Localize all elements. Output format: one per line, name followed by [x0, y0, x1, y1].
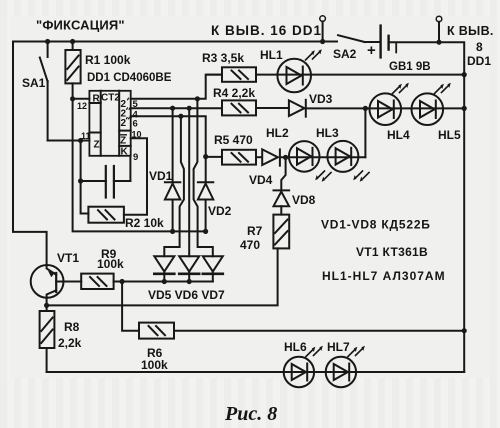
transistor VT1 — [31, 265, 64, 298]
svg-text:HL2: HL2 — [266, 126, 289, 140]
node pin5 bus — [195, 96, 200, 101]
node R9 R6 — [120, 279, 125, 284]
svg-text:Z: Z — [120, 136, 126, 147]
resistor R7 — [273, 215, 289, 249]
svg-text:6: 6 — [133, 118, 138, 129]
wire bus pin5 to VD7 — [194, 99, 213, 256]
svg-text:Z: Z — [94, 140, 100, 151]
wire row2 R4 to VD3 — [256, 107, 289, 109]
svg-text:HL6: HL6 — [284, 340, 307, 354]
svg-text:12: 12 — [77, 101, 87, 111]
diode VD6 — [179, 256, 199, 274]
svg-text:HL3: HL3 — [316, 126, 339, 140]
svg-text:R: R — [93, 94, 101, 105]
svg-text:R5 470: R5 470 — [214, 133, 253, 147]
svg-text:HL7: HL7 — [327, 340, 350, 354]
svg-text:VD2: VD2 — [208, 204, 232, 218]
svg-text:HL1-HL7 АЛ307АМ: HL1-HL7 АЛ307АМ — [322, 269, 446, 283]
svg-text:HL5: HL5 — [438, 128, 461, 142]
wire VD8 to R7 — [280, 206, 282, 214]
wire bus pin4 to VD6 — [188, 108, 190, 256]
wire R5 left — [206, 156, 222, 158]
node R6 border — [462, 328, 467, 333]
svg-text:SA1: SA1 — [22, 76, 46, 90]
svg-text:К ВЫВ. 16 DD1: К ВЫВ. 16 DD1 — [211, 23, 322, 38]
wire R5 node to VD2 cathode — [205, 157, 207, 183]
switch SA1 — [40, 42, 48, 141]
svg-text:R8: R8 — [64, 320, 80, 334]
svg-text:VT1: VT1 — [57, 251, 79, 265]
node pin4 bus VD6 — [187, 106, 192, 111]
wire row1 R3 to HL1 to border — [256, 74, 464, 76]
diode VD1 — [165, 182, 180, 199]
resistor R4 — [222, 100, 256, 115]
resistor R1 — [65, 42, 80, 99]
LED HL6 — [284, 347, 323, 388]
wire pin4 node to VD1 cathode — [172, 108, 174, 182]
node R1 top — [70, 39, 75, 44]
resistor R9 — [81, 274, 122, 289]
svg-text:8: 8 — [476, 40, 483, 54]
wire VT1 base to R9 — [64, 281, 82, 283]
LED HL7 — [326, 347, 365, 388]
wire pin 5 to R3 riser — [131, 75, 222, 99]
svg-text:K: K — [121, 147, 129, 158]
LED HL2 — [289, 141, 331, 181]
svg-text:DD1 CD4060BE: DD1 CD4060BE — [87, 72, 172, 84]
wire SA1 to pin 11 — [48, 140, 90, 142]
node R1 pin12 — [70, 96, 75, 101]
wire C1 to pin 9 — [129, 156, 131, 181]
resistor R2 — [88, 207, 124, 223]
svg-text:VT1 КТ361В: VT1 КТ361В — [356, 245, 428, 259]
wire top supply rail — [13, 41, 337, 43]
wire R1 node down to reset rail — [73, 99, 206, 232]
wire row2 VD3 to HL4 HL5 border — [306, 107, 465, 109]
svg-text:10: 10 — [132, 130, 142, 140]
wire row3 R5 to VD4 — [256, 156, 262, 158]
svg-text:R3 3,5k: R3 3,5k — [202, 51, 244, 65]
wire collector rail to R7 — [47, 248, 278, 305]
wire VD5 to base rail — [163, 272, 165, 282]
switch SA2 — [338, 35, 380, 42]
label R6 100k — [141, 346, 168, 372]
op-amp U1 (counter IC DD1 body) — [89, 91, 130, 156]
wire row3 VD4 through HL2 HL3 — [280, 156, 365, 158]
node row2 border — [462, 106, 467, 111]
svg-text:+: + — [367, 42, 376, 59]
wire pin11 node down to R2 — [81, 141, 89, 214]
node VD5 rail — [162, 279, 167, 284]
svg-text:SA2: SA2 — [333, 47, 357, 61]
svg-text:11: 11 — [81, 131, 91, 141]
diode VD2 — [198, 182, 213, 199]
node HL1 border — [462, 72, 467, 77]
wire VT1 collector node — [46, 298, 48, 311]
node VD1 reset rail — [170, 229, 175, 234]
diode VD3 — [289, 100, 306, 117]
IC label 2^2 — [121, 107, 131, 119]
node C1 tap — [78, 178, 83, 183]
svg-text:VD1-VD8 КД522Б: VD1-VD8 КД522Б — [321, 218, 431, 232]
svg-text:9: 9 — [133, 152, 138, 163]
wire left border down to VT1 emitter — [13, 42, 47, 266]
LED HL4 — [370, 84, 409, 125]
svg-text:R2 10k: R2 10k — [125, 216, 164, 230]
LED HL5 — [412, 84, 451, 125]
svg-text:CT2: CT2 — [101, 93, 120, 104]
wire HL3 riser to row2 — [364, 108, 366, 157]
IC label Z output — [120, 135, 128, 147]
node VD4 HL2 VD8 — [283, 155, 288, 160]
svg-text:VD5 VD6 VD7: VD5 VD6 VD7 — [148, 288, 225, 302]
node terminal 16 — [320, 39, 325, 44]
node pin4 bus VD1 — [170, 106, 175, 111]
node VT1 collector — [44, 303, 49, 308]
label R7 470 — [240, 224, 263, 252]
svg-text:2: 2 — [121, 118, 127, 129]
resistor R6 — [139, 323, 174, 339]
wire R2 to pin 10 — [124, 138, 147, 214]
wire VD6 to base rail — [188, 272, 190, 282]
resistor R3 — [207, 67, 256, 82]
svg-text:DD1: DD1 — [467, 54, 491, 68]
label R8 2,2k — [58, 320, 82, 350]
node VD2 reset rail — [203, 229, 208, 234]
svg-text:VD1: VD1 — [149, 169, 173, 183]
svg-text:R7: R7 — [247, 224, 263, 238]
diode VD4 — [262, 149, 280, 165]
svg-text:100k: 100k — [97, 257, 124, 271]
battery GB1 — [381, 26, 397, 58]
node pin11 — [78, 138, 83, 143]
label R9 100k — [97, 247, 124, 271]
wire R6 to right border — [174, 330, 464, 332]
wire pin 4 to R4 — [131, 107, 222, 109]
wire bottom rail through HL6 HL7 — [47, 371, 465, 373]
wire pin 6 to R5 riser — [131, 116, 206, 156]
capacitor C1 — [81, 166, 131, 198]
IC label 2^1 — [121, 98, 129, 110]
diode VD7 — [203, 256, 223, 274]
node R5 VD2 — [203, 154, 208, 159]
wire pin 12 — [73, 98, 90, 100]
terminal to pin 8 DD1 — [436, 16, 442, 42]
svg-text:HL1: HL1 — [260, 48, 283, 62]
node HL3 riser row2 — [363, 106, 368, 111]
wire VD2 anode to reset rail — [205, 200, 207, 232]
resistor R5 — [222, 150, 256, 165]
node SA1 top — [45, 39, 50, 44]
svg-text:R1 100k: R1 100k — [85, 53, 131, 67]
terminal to pin 16 DD1 — [320, 16, 326, 42]
svg-text:VD8: VD8 — [292, 193, 316, 207]
wire base rail — [122, 281, 213, 283]
diode VD8 — [274, 190, 290, 206]
svg-text:VD3: VD3 — [309, 92, 333, 106]
svg-text:Рис. 8: Рис. 8 — [224, 403, 277, 425]
LED HL3 — [327, 141, 369, 181]
wire VD1 anode to reset rail — [172, 200, 174, 232]
label К ВЫВ. 8 DD1 — [447, 24, 494, 68]
svg-text:GB1 9В: GB1 9В — [389, 61, 431, 73]
svg-text:VD4: VD4 — [249, 173, 273, 187]
IC label 2^3 — [121, 117, 132, 129]
svg-text:HL4: HL4 — [387, 128, 410, 142]
wire right border — [389, 42, 465, 372]
svg-text:470: 470 — [240, 238, 260, 252]
wire VD8 leg — [281, 157, 285, 190]
diode VD5 — [154, 256, 174, 274]
resistor R8 — [40, 311, 55, 372]
svg-text:R4 2,2k: R4 2,2k — [213, 86, 255, 100]
wire VD7 to base rail — [212, 272, 214, 282]
node VD6 rail — [187, 279, 192, 284]
node pin6 bus VD5 — [178, 114, 183, 119]
LED HL1 — [277, 50, 321, 92]
svg-text:100k: 100k — [141, 358, 168, 372]
svg-text:2,2k: 2,2k — [58, 336, 82, 350]
svg-text:К ВЫВ.: К ВЫВ. — [447, 24, 494, 38]
wire R9 node down to R6 — [122, 282, 139, 331]
node terminal 8 — [436, 40, 441, 45]
wire bus pin6 to VD5 — [164, 116, 184, 256]
svg-text:"ФИКСАЦИЯ": "ФИКСАЦИЯ" — [36, 18, 125, 33]
